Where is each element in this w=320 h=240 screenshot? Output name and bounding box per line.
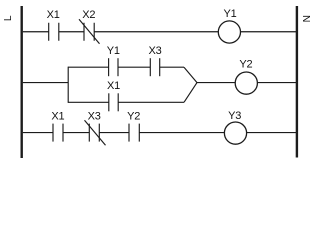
svg-text:N: N <box>302 15 313 22</box>
left power rail L <box>21 6 23 158</box>
wire X2 to coil Y1 <box>94 31 218 33</box>
svg-text:L: L <box>3 15 14 21</box>
wire X1 to X3 <box>63 132 89 134</box>
coil Y3 <box>224 122 246 144</box>
coil Y1 <box>218 21 240 43</box>
rung 2 bottom branch wire to contact X1 <box>68 101 109 103</box>
wire coil Y1 to rail N <box>241 31 296 33</box>
bottom merge diagonal <box>184 83 197 103</box>
wire Y2 to coil Y3 <box>139 132 224 134</box>
svg-text:X2: X2 <box>82 9 95 21</box>
wire coil Y3 to rail N <box>247 132 296 134</box>
rung 3 wire: rail L to contact X1 <box>23 132 53 134</box>
contact X1 (NO) rung 2 bottom branch <box>109 93 118 111</box>
svg-text:Y2: Y2 <box>239 59 252 71</box>
wire coil Y2 to rail N <box>258 82 297 84</box>
contact X1 (NO) rung 3 <box>53 124 63 142</box>
svg-text:Y1: Y1 <box>223 8 236 20</box>
contact X1 (NO) rung 1 <box>49 23 59 41</box>
contact Y1 (NO) rung 2 <box>109 58 118 76</box>
svg-text:X3: X3 <box>148 45 161 57</box>
right power rail N <box>296 6 298 158</box>
contact X3 (NC) rung 3 <box>85 120 106 145</box>
svg-text:X3: X3 <box>88 111 101 123</box>
svg-text:X1: X1 <box>107 80 120 92</box>
coil Y2 <box>235 72 257 94</box>
rung 2 top branch wire to contact Y1 <box>68 66 108 68</box>
rung 2 entry wire from rail L <box>23 82 68 84</box>
top merge diagonal <box>184 67 197 82</box>
svg-text:Y3: Y3 <box>228 110 241 122</box>
svg-text:Y2: Y2 <box>127 111 140 123</box>
contact X2 (NC) rung 1 <box>79 19 100 43</box>
wire X3 to top merge corner <box>160 66 184 68</box>
contact Y2 (NO) rung 3 <box>129 124 139 142</box>
wire Y1 to X3 <box>118 66 150 68</box>
rung 1 wire: rail L to contact X1 <box>23 31 49 33</box>
wire X3 to Y2 <box>99 132 129 134</box>
wire merge node to coil Y2 <box>197 82 236 84</box>
contact X3 (NO) rung 2 <box>150 58 159 76</box>
rung 2 branch left vertical <box>67 67 69 103</box>
svg-text:X1: X1 <box>51 111 64 123</box>
svg-text:X1: X1 <box>47 9 60 21</box>
svg-text:Y1: Y1 <box>107 45 120 57</box>
wire X1 to X2 <box>59 31 84 33</box>
wire X1 to bottom merge corner <box>118 101 184 103</box>
